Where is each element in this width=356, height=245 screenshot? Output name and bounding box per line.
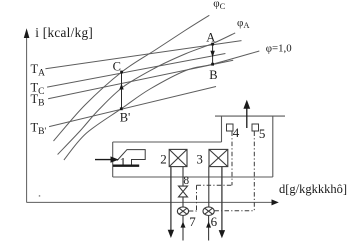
fan 1 thick base — [113, 164, 139, 166]
control dash-dot lines — [189, 132, 255, 212]
room top edge — [215, 115, 285, 117]
state point C — [120, 71, 123, 74]
up arrow below pump 6 — [208, 216, 210, 241]
pipe left of coil 2 down — [170, 167, 172, 232]
phi 1.0 saturation curve — [64, 51, 259, 160]
supply air arrow into room — [243, 100, 250, 128]
i axis (vertical) — [26, 33, 28, 203]
state point A — [211, 43, 214, 46]
svg-text:A: A — [206, 31, 215, 45]
pump 7 X — [179, 208, 187, 214]
dashdot from sensor 4 down — [231, 132, 233, 186]
dashdot from sensor 5 down — [253, 132, 255, 211]
svg-text:1: 1 — [120, 154, 127, 169]
phi C curve — [54, 15, 210, 141]
room right wall — [272, 116, 274, 177]
svg-text:φC: φC — [213, 0, 225, 11]
pipe valve8 to pump 7 — [182, 197, 184, 207]
duct left wall — [112, 142, 114, 177]
up arrow below pump 7 — [182, 216, 184, 241]
coil 2 X diagonals — [169, 149, 187, 166]
state point B' — [120, 107, 123, 110]
svg-text:d[g/kgkkkhô]: d[g/kgkkkhô] — [279, 182, 347, 196]
schematic outline — [113, 116, 285, 177]
i axis arrowhead — [24, 28, 30, 38]
duct top edge — [113, 141, 222, 143]
isotherm TC line — [47, 54, 225, 88]
process arrow B' to C (head, mid-shaft, pointing up) — [119, 84, 123, 90]
svg-text:6: 6 — [211, 214, 218, 229]
fan 1 scroll outline — [113, 150, 145, 166]
pipe coil2 right down to valve 8 — [182, 167, 184, 187]
dashdot vertical x196.5 — [196, 185, 198, 211]
svg-text:8: 8 — [183, 175, 189, 187]
isotherm TB line — [48, 60, 233, 99]
state point B — [211, 63, 214, 66]
pipe coil3 left down to pump 6 — [208, 167, 210, 207]
d axis (horizontal) — [27, 201, 274, 203]
stray dot — [39, 195, 40, 196]
dashdot to pump 6 — [214, 210, 254, 212]
svg-text:i [kcal/kg]: i [kcal/kg] — [35, 25, 93, 40]
dashdot horizontal y185 — [197, 184, 233, 186]
pump 7 circle — [177, 207, 188, 216]
pump 6 X — [205, 208, 213, 214]
pipes solid — [168, 167, 225, 241]
pipe left down arrowhead — [168, 230, 174, 238]
duct bottom edge — [113, 176, 273, 178]
sensor square 5 — [252, 124, 259, 131]
svg-text:B': B' — [120, 110, 131, 124]
pump 6 circle — [203, 207, 214, 216]
dashdot to pump 7 — [189, 210, 197, 212]
process arrow A to B (head, mid-shaft, pointing down) — [210, 51, 214, 58]
isotherm TA line — [45, 41, 241, 69]
coil 3 X diagonals — [209, 149, 228, 166]
process arrow A to B (shaft) — [212, 44, 214, 64]
inlet air arrow — [95, 156, 119, 162]
svg-text:2: 2 — [160, 152, 167, 167]
isotherm TB' line — [49, 87, 216, 127]
svg-text:φ=1,0: φ=1,0 — [266, 43, 292, 55]
pipe right of coil 3 down — [221, 167, 223, 232]
d axis arrowhead — [272, 199, 279, 205]
room left wall — [221, 116, 223, 142]
svg-text:7: 7 — [189, 214, 196, 229]
svg-text:3: 3 — [196, 152, 203, 167]
heater coil 2 box — [169, 149, 228, 166]
cooler coil 3 box — [209, 149, 228, 166]
svg-text:5: 5 — [259, 126, 266, 141]
valve 8 bowtie — [179, 186, 188, 197]
svg-text:C: C — [113, 60, 121, 74]
phi A curve — [58, 33, 236, 155]
pipe right down arrowhead — [219, 230, 225, 238]
sensor square 4 — [227, 124, 234, 131]
svg-text:B: B — [209, 68, 217, 82]
process arrow B' to C (shaft) — [121, 72, 123, 109]
svg-text:4: 4 — [233, 125, 240, 140]
